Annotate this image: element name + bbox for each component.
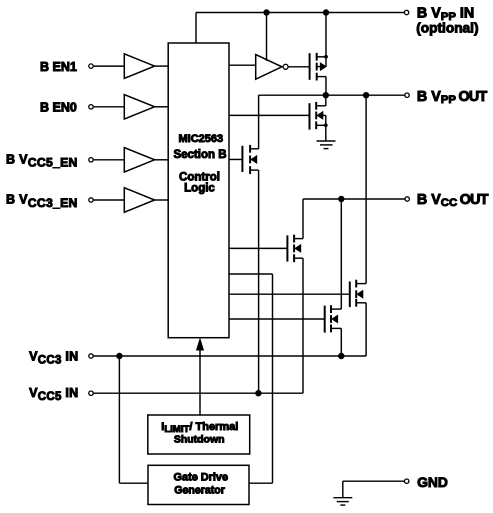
svg-text:Gate Drive: Gate Drive xyxy=(174,471,228,483)
svg-text:Section B: Section B xyxy=(173,149,226,161)
svg-text:MIC2563: MIC2563 xyxy=(178,133,223,145)
svg-text:B EN1: B EN1 xyxy=(40,60,77,74)
svg-text:(optional): (optional) xyxy=(416,20,478,35)
svg-text:Generator: Generator xyxy=(174,485,225,497)
svg-text:B VCC5_EN: B VCC5_EN xyxy=(6,152,78,169)
svg-text:Logic: Logic xyxy=(184,182,215,194)
svg-text:GND: GND xyxy=(417,475,448,490)
svg-text:B VCCOUT: B VCCOUT xyxy=(417,192,489,209)
svg-text:B EN0: B EN0 xyxy=(40,101,77,115)
svg-text:B VCC3_EN: B VCC3_EN xyxy=(6,193,78,210)
svg-text:Shutdown: Shutdown xyxy=(174,433,225,445)
svg-text:B VPPOUT: B VPPOUT xyxy=(417,89,488,106)
svg-text:VCC3 IN: VCC3 IN xyxy=(29,350,78,367)
svg-text:VCC5 IN: VCC5 IN xyxy=(29,386,78,403)
